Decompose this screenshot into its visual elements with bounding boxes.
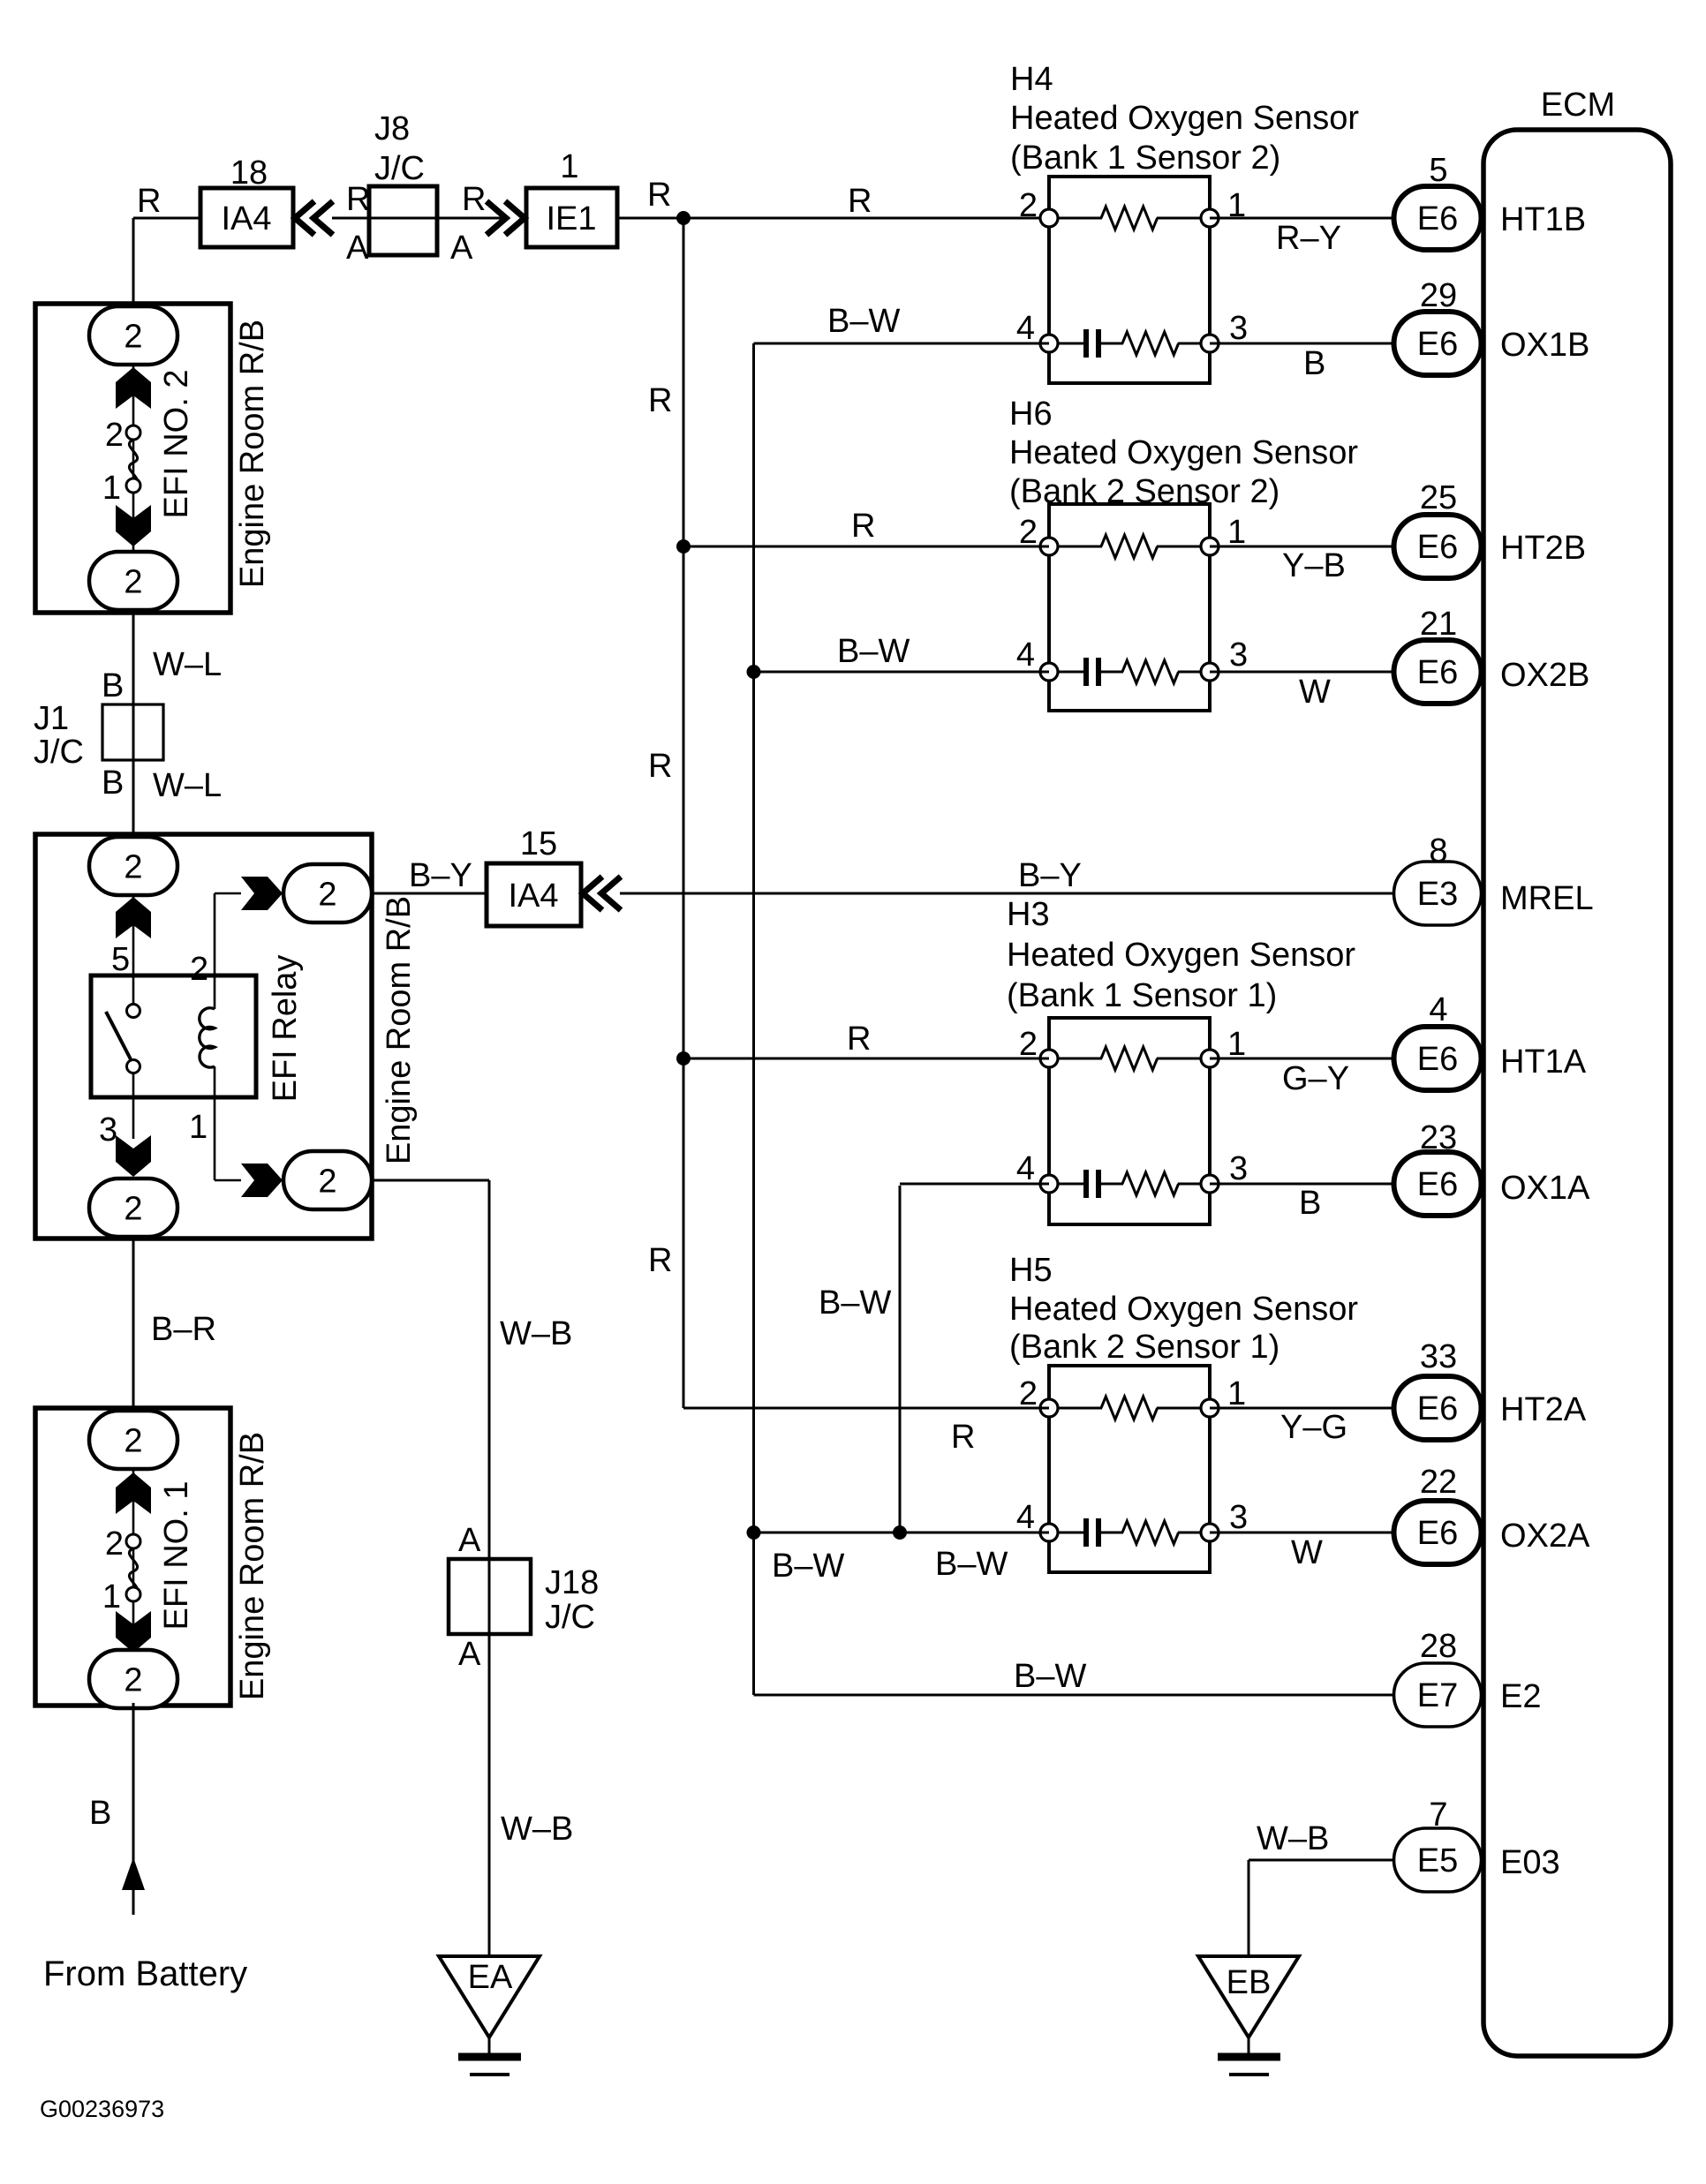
relay switch wire bottom bbox=[132, 1073, 135, 1097]
relay switch contact top bbox=[127, 1005, 140, 1018]
svg-text:B: B bbox=[1299, 1185, 1321, 1222]
svg-text:R: R bbox=[346, 181, 370, 218]
wire B-W from bus corner to ECM E2 bbox=[754, 1694, 1396, 1697]
pin number labels of H4 bbox=[1016, 187, 1248, 347]
svg-text:H5: H5 bbox=[1009, 1252, 1053, 1289]
svg-text:B–W: B–W bbox=[837, 633, 910, 670]
svg-text:E6: E6 bbox=[1417, 1390, 1458, 1427]
connector IE1 bbox=[526, 188, 617, 247]
svg-text:28: 28 bbox=[1420, 1628, 1457, 1665]
fuse arrow down bbox=[116, 505, 151, 546]
wire B from battery bbox=[132, 1703, 135, 1915]
svg-text:2: 2 bbox=[105, 417, 124, 454]
svg-text:Y–G: Y–G bbox=[1280, 1409, 1347, 1446]
terminal oval 2 (coil -) bbox=[283, 1151, 372, 1209]
svg-text:J1: J1 bbox=[34, 700, 69, 737]
svg-text:J/C: J/C bbox=[374, 150, 425, 187]
wire B-W from branch to H3 pin4 bbox=[900, 1183, 1049, 1186]
fuse contact 1 bbox=[126, 478, 140, 493]
junction node bbox=[747, 665, 761, 679]
pin number labels of H6 bbox=[1016, 514, 1248, 674]
svg-text:J8: J8 bbox=[374, 110, 410, 147]
wire R from EFI NO.2 fuse up to connector IA4 bbox=[132, 218, 135, 307]
heated oxygen sensor H5 title bbox=[1009, 1252, 1358, 1366]
svg-text:H6: H6 bbox=[1009, 395, 1053, 433]
svg-text:4: 4 bbox=[1016, 636, 1035, 674]
svg-text:B–W: B–W bbox=[772, 1548, 844, 1585]
svg-text:IA4: IA4 bbox=[508, 877, 558, 915]
svg-text:W–L: W–L bbox=[153, 767, 222, 804]
svg-text:4: 4 bbox=[1016, 310, 1035, 347]
svg-text:H4: H4 bbox=[1010, 61, 1053, 98]
svg-text:E6: E6 bbox=[1417, 654, 1458, 691]
svg-text:33: 33 bbox=[1420, 1338, 1457, 1375]
svg-text:R: R bbox=[848, 183, 872, 220]
fuse arrow up bbox=[116, 367, 151, 409]
wire R between IA4 and J8 bbox=[332, 217, 369, 220]
heated oxygen sensor H4 box bbox=[1049, 177, 1210, 383]
svg-text:E6: E6 bbox=[1417, 529, 1458, 566]
svg-text:4: 4 bbox=[1016, 1499, 1035, 1536]
heated oxygen sensor H5 box bbox=[1049, 1366, 1210, 1572]
ground EA symbol bbox=[488, 2037, 491, 2053]
svg-text:E6: E6 bbox=[1417, 1041, 1458, 1078]
wire inside fuse block no.1 bbox=[132, 1412, 135, 1682]
svg-text:EB: EB bbox=[1227, 1964, 1272, 2001]
svg-text:A: A bbox=[458, 1522, 481, 1559]
svg-text:IE1: IE1 bbox=[546, 200, 596, 237]
wire R from IE1 to sensor H4 pin 2 bbox=[617, 217, 1049, 220]
svg-text:E6: E6 bbox=[1417, 1515, 1458, 1552]
capacitor and resistor (sense cell) in H4 bbox=[1049, 329, 1210, 358]
terminal oval 2 (pin 3 out) bbox=[89, 1179, 177, 1237]
ECM connector E7 pin 28 (E2) bbox=[1394, 1628, 1542, 1727]
svg-text:OX1A: OX1A bbox=[1500, 1170, 1590, 1207]
svg-text:2: 2 bbox=[190, 951, 208, 988]
terminal oval 2 top bbox=[89, 1411, 177, 1469]
heated oxygen sensor H3 box bbox=[1049, 1018, 1210, 1224]
arrow into oval pin2 bbox=[241, 877, 283, 910]
svg-text:R: R bbox=[851, 508, 875, 545]
wire B from H4 pin3 to ECM OX1B bbox=[1210, 343, 1395, 345]
fuse contact 2 bbox=[126, 426, 140, 440]
pin number labels of H5 bbox=[1016, 1375, 1248, 1536]
junction node bbox=[676, 1051, 691, 1066]
svg-text:3: 3 bbox=[99, 1111, 117, 1148]
ECM connector E3 pin 8 (MREL) bbox=[1394, 832, 1594, 925]
wire pin3 down bbox=[132, 1097, 135, 1139]
svg-text:B: B bbox=[1303, 345, 1325, 382]
svg-text:2: 2 bbox=[124, 319, 142, 356]
terminal pins of H4 bbox=[1040, 209, 1219, 352]
svg-text:B–W: B–W bbox=[827, 303, 900, 340]
wire B-W from bus to H4 pin4 bbox=[754, 343, 1050, 345]
connector arrows at IE1 bbox=[487, 201, 525, 235]
engine room R/B no.2 box bbox=[35, 304, 230, 613]
connector arrows at IA4 pin 15 bbox=[583, 877, 621, 910]
svg-text:4: 4 bbox=[1429, 991, 1447, 1028]
svg-text:(Bank 1 Sensor 2): (Bank 1 Sensor 2) bbox=[1010, 139, 1280, 177]
svg-text:A: A bbox=[450, 230, 473, 267]
svg-text:A: A bbox=[346, 230, 369, 267]
svg-text:R: R bbox=[648, 748, 672, 785]
svg-text:R: R bbox=[648, 1242, 672, 1279]
wire B-Y from EFI relay to connector IA4 pin 15 bbox=[372, 892, 487, 895]
svg-text:W: W bbox=[1299, 674, 1331, 711]
relay coil bbox=[200, 1008, 215, 1067]
fuse contact 1 bbox=[126, 1587, 140, 1601]
arrow into oval pin1 bbox=[241, 1164, 283, 1197]
svg-text:W–B: W–B bbox=[1257, 1820, 1329, 1857]
wire B-R from relay block to fuse block no.1 bbox=[132, 1239, 135, 1408]
wire B-W from bus to H6 pin4 bbox=[754, 671, 1050, 674]
svg-text:Engine Room R/B: Engine Room R/B bbox=[234, 1432, 271, 1700]
svg-text:E2: E2 bbox=[1500, 1678, 1541, 1715]
wire inside fuse block no.2 bbox=[132, 307, 135, 583]
resistor (heater) in H5 bbox=[1049, 1397, 1210, 1420]
relay switch contact bottom bbox=[127, 1060, 140, 1073]
svg-text:OX2B: OX2B bbox=[1500, 657, 1589, 694]
connector IA4 (second) bbox=[487, 863, 581, 926]
terminal oval 2 top bbox=[89, 306, 177, 365]
svg-text:E6: E6 bbox=[1417, 326, 1458, 363]
heated oxygen sensor H6 box bbox=[1049, 504, 1210, 711]
svg-text:G00236973: G00236973 bbox=[40, 2096, 164, 2122]
svg-text:1: 1 bbox=[102, 1578, 121, 1615]
wire through J8 bbox=[369, 217, 436, 220]
svg-text:B–W: B–W bbox=[1014, 1658, 1086, 1695]
svg-text:A: A bbox=[458, 1636, 481, 1673]
vertical wire B-W branch for OX1A bbox=[899, 1186, 902, 1533]
junction node bbox=[676, 539, 691, 554]
svg-text:R: R bbox=[462, 181, 486, 218]
svg-text:E6: E6 bbox=[1417, 200, 1458, 237]
heated oxygen sensor H6 title bbox=[1009, 395, 1358, 510]
fuse contact 2 bbox=[126, 1534, 140, 1548]
wire G-Y from H3 pin1 to ECM HT1A bbox=[1210, 1058, 1395, 1060]
fuse EFI NO.1 element bbox=[129, 1548, 137, 1594]
battery feed arrowhead bbox=[122, 1857, 145, 1890]
svg-text:R: R bbox=[648, 382, 672, 419]
connector arrows at IA4 bbox=[295, 201, 333, 235]
svg-text:Engine Room R/B: Engine Room R/B bbox=[234, 320, 271, 588]
svg-text:2: 2 bbox=[124, 1423, 142, 1460]
wire B from H3 pin3 to ECM OX1A bbox=[1210, 1183, 1395, 1186]
svg-text:HT2B: HT2B bbox=[1500, 530, 1586, 567]
svg-text:E3: E3 bbox=[1417, 876, 1458, 913]
svg-text:4: 4 bbox=[1016, 1150, 1035, 1187]
ECM connector E6 pin 5 (HT1B) bbox=[1394, 152, 1587, 250]
relay switch blade bbox=[106, 1012, 131, 1059]
ECM connector E6 pin 4 (HT1A) bbox=[1394, 991, 1587, 1090]
svg-text:B: B bbox=[102, 764, 124, 802]
svg-text:ECM: ECM bbox=[1541, 87, 1615, 124]
fuse arrow down to oval bbox=[116, 1135, 151, 1177]
svg-text:HT1B: HT1B bbox=[1500, 201, 1586, 238]
svg-text:21: 21 bbox=[1420, 606, 1457, 643]
terminal oval 2 bottom bbox=[89, 1650, 177, 1708]
engine room R/B relay box bbox=[35, 834, 372, 1239]
vertical wire R bus bbox=[683, 218, 685, 1408]
svg-text:R: R bbox=[951, 1419, 975, 1456]
terminal pins of H5 bbox=[1040, 1399, 1219, 1541]
svg-text:HT1A: HT1A bbox=[1500, 1043, 1587, 1081]
svg-text:W–L: W–L bbox=[153, 646, 222, 683]
EFI relay box bbox=[91, 975, 256, 1097]
capacitor and resistor (sense cell) in H6 bbox=[1049, 658, 1210, 686]
svg-text:2: 2 bbox=[124, 849, 142, 886]
svg-text:From Battery: From Battery bbox=[43, 1954, 247, 1993]
svg-text:H3: H3 bbox=[1007, 896, 1050, 933]
ECM connector E5 pin 7 (E03) bbox=[1394, 1796, 1560, 1892]
wire W-B from relay to J18 and ground EA bbox=[372, 1179, 489, 1182]
svg-text:2: 2 bbox=[318, 877, 336, 914]
ECM connector E6 pin 33 (HT2A) bbox=[1394, 1338, 1587, 1440]
svg-text:OX2A: OX2A bbox=[1500, 1518, 1590, 1555]
wire R from bus corner to H5 pin2 bbox=[683, 1407, 1049, 1410]
svg-text:B–W: B–W bbox=[819, 1284, 891, 1322]
wire W from H6 pin3 to ECM OX2B bbox=[1210, 671, 1395, 674]
svg-text:3: 3 bbox=[1229, 636, 1248, 674]
fuse arrow up to oval bbox=[116, 897, 151, 938]
svg-text:2: 2 bbox=[105, 1525, 124, 1563]
svg-text:Heated Oxygen Sensor: Heated Oxygen Sensor bbox=[1007, 937, 1355, 974]
wire B-Y from IA4 to ECM MREL bbox=[620, 892, 1395, 895]
svg-text:(Bank 1 Sensor 1): (Bank 1 Sensor 1) bbox=[1007, 977, 1277, 1014]
wire R-Y from H4 pin1 to ECM HT1B bbox=[1210, 217, 1395, 220]
ECM connector E6 pin 22 (OX2A) bbox=[1394, 1464, 1591, 1564]
svg-text:W–B: W–B bbox=[501, 1811, 573, 1848]
ECM connector E6 pin 25 (HT2B) bbox=[1394, 479, 1587, 578]
svg-text:29: 29 bbox=[1420, 277, 1457, 314]
relay coil wire bbox=[214, 975, 216, 1009]
wire pin2 of relay coil bbox=[214, 893, 216, 975]
wire pin1 of relay coil bbox=[214, 1097, 216, 1180]
wire W-L from fuse block to J1 bbox=[132, 613, 135, 834]
junction node on R wire bbox=[676, 211, 691, 225]
svg-text:R: R bbox=[647, 177, 671, 214]
engine room R/B no.1 box bbox=[35, 1408, 230, 1706]
terminal oval 2 (coil +) bbox=[283, 864, 372, 923]
svg-text:W–B: W–B bbox=[500, 1315, 572, 1352]
junction connector J1 box bbox=[102, 704, 163, 760]
fuse EFI NO.2 element bbox=[129, 440, 137, 486]
svg-text:B–R: B–R bbox=[151, 1311, 216, 1348]
svg-text:2: 2 bbox=[124, 564, 142, 601]
svg-text:HT2A: HT2A bbox=[1500, 1391, 1587, 1428]
ground EB triangle bbox=[1198, 1956, 1299, 2037]
svg-text:EA: EA bbox=[468, 1959, 513, 1996]
svg-text:W: W bbox=[1291, 1534, 1323, 1571]
svg-text:J/C: J/C bbox=[545, 1599, 595, 1636]
svg-text:(Bank 2 Sensor 1): (Bank 2 Sensor 1) bbox=[1009, 1329, 1279, 1366]
svg-text:E5: E5 bbox=[1417, 1842, 1458, 1879]
junction node bbox=[747, 1525, 761, 1540]
heated oxygen sensor H3 title bbox=[1007, 896, 1355, 1014]
svg-text:E03: E03 bbox=[1500, 1844, 1560, 1881]
connector IA4 (instrument panel) bbox=[200, 188, 293, 247]
wire B-W from bus to H5 pin4 bbox=[754, 1532, 1050, 1534]
ECM connector E6 pin 29 (OX1B) bbox=[1394, 277, 1590, 375]
svg-text:EFI Relay: EFI Relay bbox=[267, 955, 304, 1103]
svg-text:EFI NO. 2: EFI NO. 2 bbox=[158, 370, 195, 519]
svg-text:1: 1 bbox=[102, 470, 121, 507]
heated oxygen sensor H4 title bbox=[1010, 61, 1359, 177]
wire Y-G from H5 pin1 to ECM HT2A bbox=[1210, 1407, 1395, 1410]
svg-text:1: 1 bbox=[560, 148, 578, 185]
svg-text:2: 2 bbox=[124, 1191, 142, 1228]
wire Y-B from H6 pin1 to ECM HT2B bbox=[1210, 546, 1395, 548]
svg-text:IA4: IA4 bbox=[221, 200, 271, 237]
terminal pins of H3 bbox=[1040, 1050, 1219, 1193]
svg-text:5: 5 bbox=[111, 941, 130, 978]
svg-text:3: 3 bbox=[1229, 310, 1248, 347]
svg-text:5: 5 bbox=[1429, 152, 1447, 189]
resistor (heater) in H4 bbox=[1049, 207, 1210, 230]
capacitor and resistor (sense cell) in H5 bbox=[1049, 1518, 1210, 1547]
wire pin5 into relay bbox=[132, 895, 135, 975]
wire W from H5 pin3 to ECM OX2A bbox=[1210, 1532, 1395, 1534]
svg-text:Heated Oxygen Sensor: Heated Oxygen Sensor bbox=[1010, 100, 1359, 137]
svg-text:R–Y: R–Y bbox=[1276, 220, 1341, 257]
svg-text:B: B bbox=[102, 667, 124, 704]
svg-text:Heated Oxygen Sensor: Heated Oxygen Sensor bbox=[1009, 434, 1358, 471]
vertical wire B-W bus bbox=[752, 343, 755, 1695]
fuse arrow down bbox=[116, 1611, 151, 1653]
svg-text:2: 2 bbox=[318, 1164, 336, 1201]
svg-text:2: 2 bbox=[1019, 187, 1038, 224]
wire R from bus to H3 pin2 bbox=[683, 1058, 1049, 1060]
relay switch wire top bbox=[132, 975, 135, 1005]
svg-text:B–Y: B–Y bbox=[1018, 857, 1082, 894]
svg-text:Y–B: Y–B bbox=[1282, 547, 1346, 584]
svg-text:MREL: MREL bbox=[1500, 880, 1594, 917]
ground EB symbol bbox=[1248, 2037, 1250, 2053]
svg-text:OX1B: OX1B bbox=[1500, 327, 1589, 364]
junction connector J8 box bbox=[369, 186, 437, 255]
wire R from J8 to IE1 bbox=[437, 217, 506, 220]
svg-text:B: B bbox=[89, 1795, 111, 1832]
fuse arrow up bbox=[116, 1472, 151, 1514]
resistor (heater) in H6 bbox=[1049, 535, 1210, 558]
svg-text:J18: J18 bbox=[545, 1564, 599, 1601]
ECM box bbox=[1483, 130, 1671, 2056]
junction connector J18 box bbox=[449, 1559, 531, 1634]
svg-text:Engine Room R/B: Engine Room R/B bbox=[381, 896, 418, 1164]
capacitor and resistor (sense cell) in H3 bbox=[1049, 1170, 1210, 1198]
svg-text:25: 25 bbox=[1420, 479, 1457, 516]
svg-text:Heated Oxygen Sensor: Heated Oxygen Sensor bbox=[1009, 1291, 1358, 1328]
svg-text:2: 2 bbox=[124, 1662, 142, 1699]
resistor (heater) in H3 bbox=[1049, 1047, 1210, 1070]
svg-text:E7: E7 bbox=[1417, 1677, 1458, 1714]
junction node bbox=[893, 1525, 907, 1540]
svg-text:EFI NO. 1: EFI NO. 1 bbox=[158, 1481, 195, 1630]
svg-text:J/C: J/C bbox=[34, 734, 84, 771]
wire R from bus to H6 pin2 bbox=[683, 546, 1049, 548]
svg-text:22: 22 bbox=[1420, 1464, 1457, 1501]
wire W-B from ECM E03 to ground EB bbox=[1249, 1859, 1393, 1862]
svg-text:1: 1 bbox=[189, 1109, 208, 1146]
ECM connector E6 pin 21 (OX2B) bbox=[1394, 606, 1590, 704]
svg-text:R: R bbox=[137, 183, 161, 220]
svg-text:15: 15 bbox=[520, 825, 557, 862]
svg-text:R: R bbox=[847, 1020, 871, 1058]
svg-text:B–Y: B–Y bbox=[409, 857, 472, 894]
ECM connector E6 pin 23 (OX1A) bbox=[1394, 1119, 1591, 1216]
svg-text:3: 3 bbox=[1229, 1499, 1248, 1536]
svg-text:E6: E6 bbox=[1417, 1166, 1458, 1203]
terminal oval 2 (pin 5 side) bbox=[89, 837, 177, 895]
svg-text:G–Y: G–Y bbox=[1282, 1060, 1349, 1097]
terminal oval 2 bottom bbox=[89, 552, 177, 610]
svg-text:3: 3 bbox=[1229, 1150, 1248, 1187]
svg-text:B–W: B–W bbox=[935, 1546, 1008, 1583]
pin number labels of H3 bbox=[1016, 1026, 1248, 1187]
ground EA triangle bbox=[439, 1956, 540, 2037]
terminal pins of H6 bbox=[1040, 538, 1219, 681]
